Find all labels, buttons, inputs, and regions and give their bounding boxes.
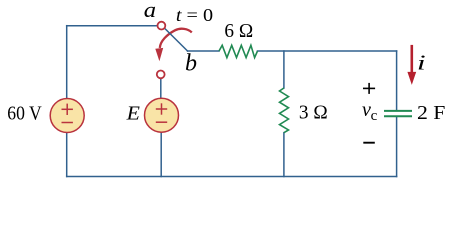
svg-text:a: a (144, 0, 156, 22)
svg-text:t = 0: t = 0 (176, 5, 213, 25)
svg-text:E: E (126, 102, 140, 124)
svg-text:c: c (371, 108, 378, 124)
svg-text:60 V: 60 V (7, 104, 41, 125)
svg-text:3 Ω: 3 Ω (299, 103, 328, 124)
svg-text:b: b (185, 50, 197, 76)
svg-text:2 F: 2 F (417, 103, 446, 124)
svg-text:i: i (417, 51, 426, 75)
svg-text:6 Ω: 6 Ω (224, 21, 253, 42)
